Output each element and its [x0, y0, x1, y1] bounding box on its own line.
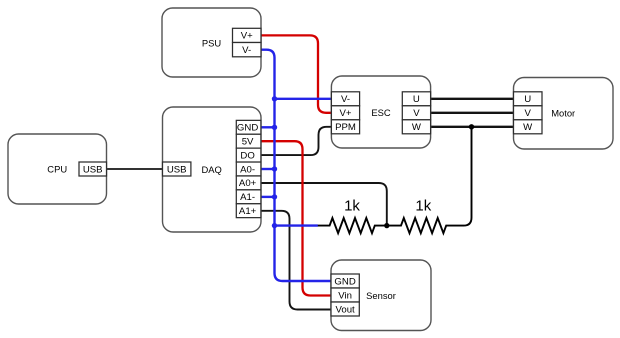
resistor R2 1k with lead to phase W — [387, 127, 472, 233]
svg-text:ESC: ESC — [371, 107, 391, 118]
svg-text:V+: V+ — [241, 31, 253, 42]
CPU block — [8, 134, 107, 204]
pin W (Motor) — [514, 120, 543, 134]
svg-text:5V: 5V — [242, 137, 254, 148]
svg-text:1k: 1k — [415, 197, 431, 214]
pin A0+ (DAQ) — [236, 176, 261, 190]
svg-text:Motor: Motor — [551, 108, 575, 119]
pin GND (DAQ) — [236, 120, 261, 134]
wire phase U ESC-Motor — [431, 98, 514, 100]
Motor block — [514, 78, 614, 150]
PSU block — [162, 8, 261, 77]
svg-text:A1+: A1+ — [239, 206, 257, 217]
svg-text:V: V — [413, 108, 420, 119]
pin USB (DAQ) — [163, 162, 191, 176]
svg-text:W: W — [523, 122, 533, 133]
pin V (Motor) — [514, 106, 543, 120]
pin V (ESC) — [402, 106, 430, 120]
pin U (ESC) — [402, 92, 430, 106]
pin Vout (Sensor) — [331, 302, 359, 316]
svg-text:Sensor: Sensor — [366, 290, 396, 301]
junction R2 tap on phase W — [469, 124, 474, 129]
svg-text:V-: V- — [341, 94, 350, 105]
svg-text:Vout: Vout — [335, 304, 355, 315]
wire USB CPU-DAQ — [107, 168, 163, 170]
svg-text:DO: DO — [240, 150, 254, 161]
svg-text:DAQ: DAQ — [202, 164, 222, 175]
svg-text:PSU: PSU — [202, 37, 222, 48]
wire blue branch to DAQ A0- — [261, 168, 275, 170]
pin W (ESC) — [402, 120, 430, 134]
wire A1+ DAQ to Sensor Vout (black) — [261, 211, 331, 310]
svg-text:V-: V- — [242, 45, 251, 56]
wire phase W ESC-Motor — [431, 126, 514, 128]
wire blue branch to DAQ A1- — [261, 196, 275, 198]
junction blue bus / A0- — [272, 166, 277, 171]
pin V- (PSU) — [233, 43, 262, 57]
wire V- PSU to Sensor GND (blue main bus) — [261, 50, 331, 281]
wire blue branch to ESC V- — [275, 98, 332, 100]
junction blue bus / A1- — [272, 194, 277, 199]
pin V+ (PSU) — [233, 28, 262, 42]
svg-text:Vin: Vin — [338, 290, 352, 301]
svg-text:USB: USB — [167, 164, 187, 175]
wire V+ PSU-ESC (red) — [261, 35, 331, 112]
pin Vin (Sensor) — [331, 288, 359, 302]
pin 5V (DAQ) — [236, 134, 261, 148]
pin DO (DAQ) — [236, 148, 261, 162]
svg-text:A1-: A1- — [240, 192, 255, 203]
svg-text:V+: V+ — [339, 108, 351, 119]
junction R1-R2 node with A0+ — [384, 223, 389, 228]
DAQ block — [163, 107, 262, 232]
junction blue bus / GND — [272, 125, 277, 130]
svg-text:U: U — [524, 94, 531, 105]
pin A0- (DAQ) — [236, 162, 261, 176]
pin USB (CPU) — [79, 162, 107, 176]
pin A1- (DAQ) — [236, 190, 261, 204]
wire blue branch to resistor R1 — [275, 224, 318, 226]
wire blue branch to DAQ GND — [261, 126, 275, 128]
svg-text:USB: USB — [83, 164, 103, 175]
svg-text:CPU: CPU — [47, 163, 67, 174]
wire phase V ESC-Motor — [431, 112, 514, 114]
svg-text:GND: GND — [334, 276, 355, 287]
wire A0+ DAQ to resistor junction (black) — [261, 183, 387, 226]
junction blue bus / resistor branch — [272, 223, 277, 228]
svg-text:GND: GND — [237, 123, 258, 134]
pin A1+ (DAQ) — [236, 204, 261, 218]
pin PPM (ESC) — [331, 120, 359, 134]
svg-text:W: W — [412, 122, 422, 133]
svg-text:PPM: PPM — [335, 122, 356, 133]
wire 5V DAQ-Sensor Vin (red) — [261, 141, 331, 295]
pin U (Motor) — [514, 92, 543, 106]
pin V- (ESC) — [331, 92, 359, 106]
junction blue bus / ESC V- — [272, 96, 277, 101]
svg-text:V: V — [524, 108, 531, 119]
svg-text:A0+: A0+ — [239, 178, 257, 189]
pin GND (Sensor) — [331, 274, 359, 288]
Sensor block — [331, 260, 431, 331]
ESC block — [331, 76, 430, 148]
pin V+ (ESC) — [331, 106, 359, 120]
svg-text:U: U — [413, 94, 420, 105]
wire DO DAQ-ESC PPM (black) — [261, 127, 331, 155]
svg-text:1k: 1k — [344, 197, 360, 214]
svg-text:A0-: A0- — [240, 164, 255, 175]
resistor R1 1k — [317, 218, 387, 233]
